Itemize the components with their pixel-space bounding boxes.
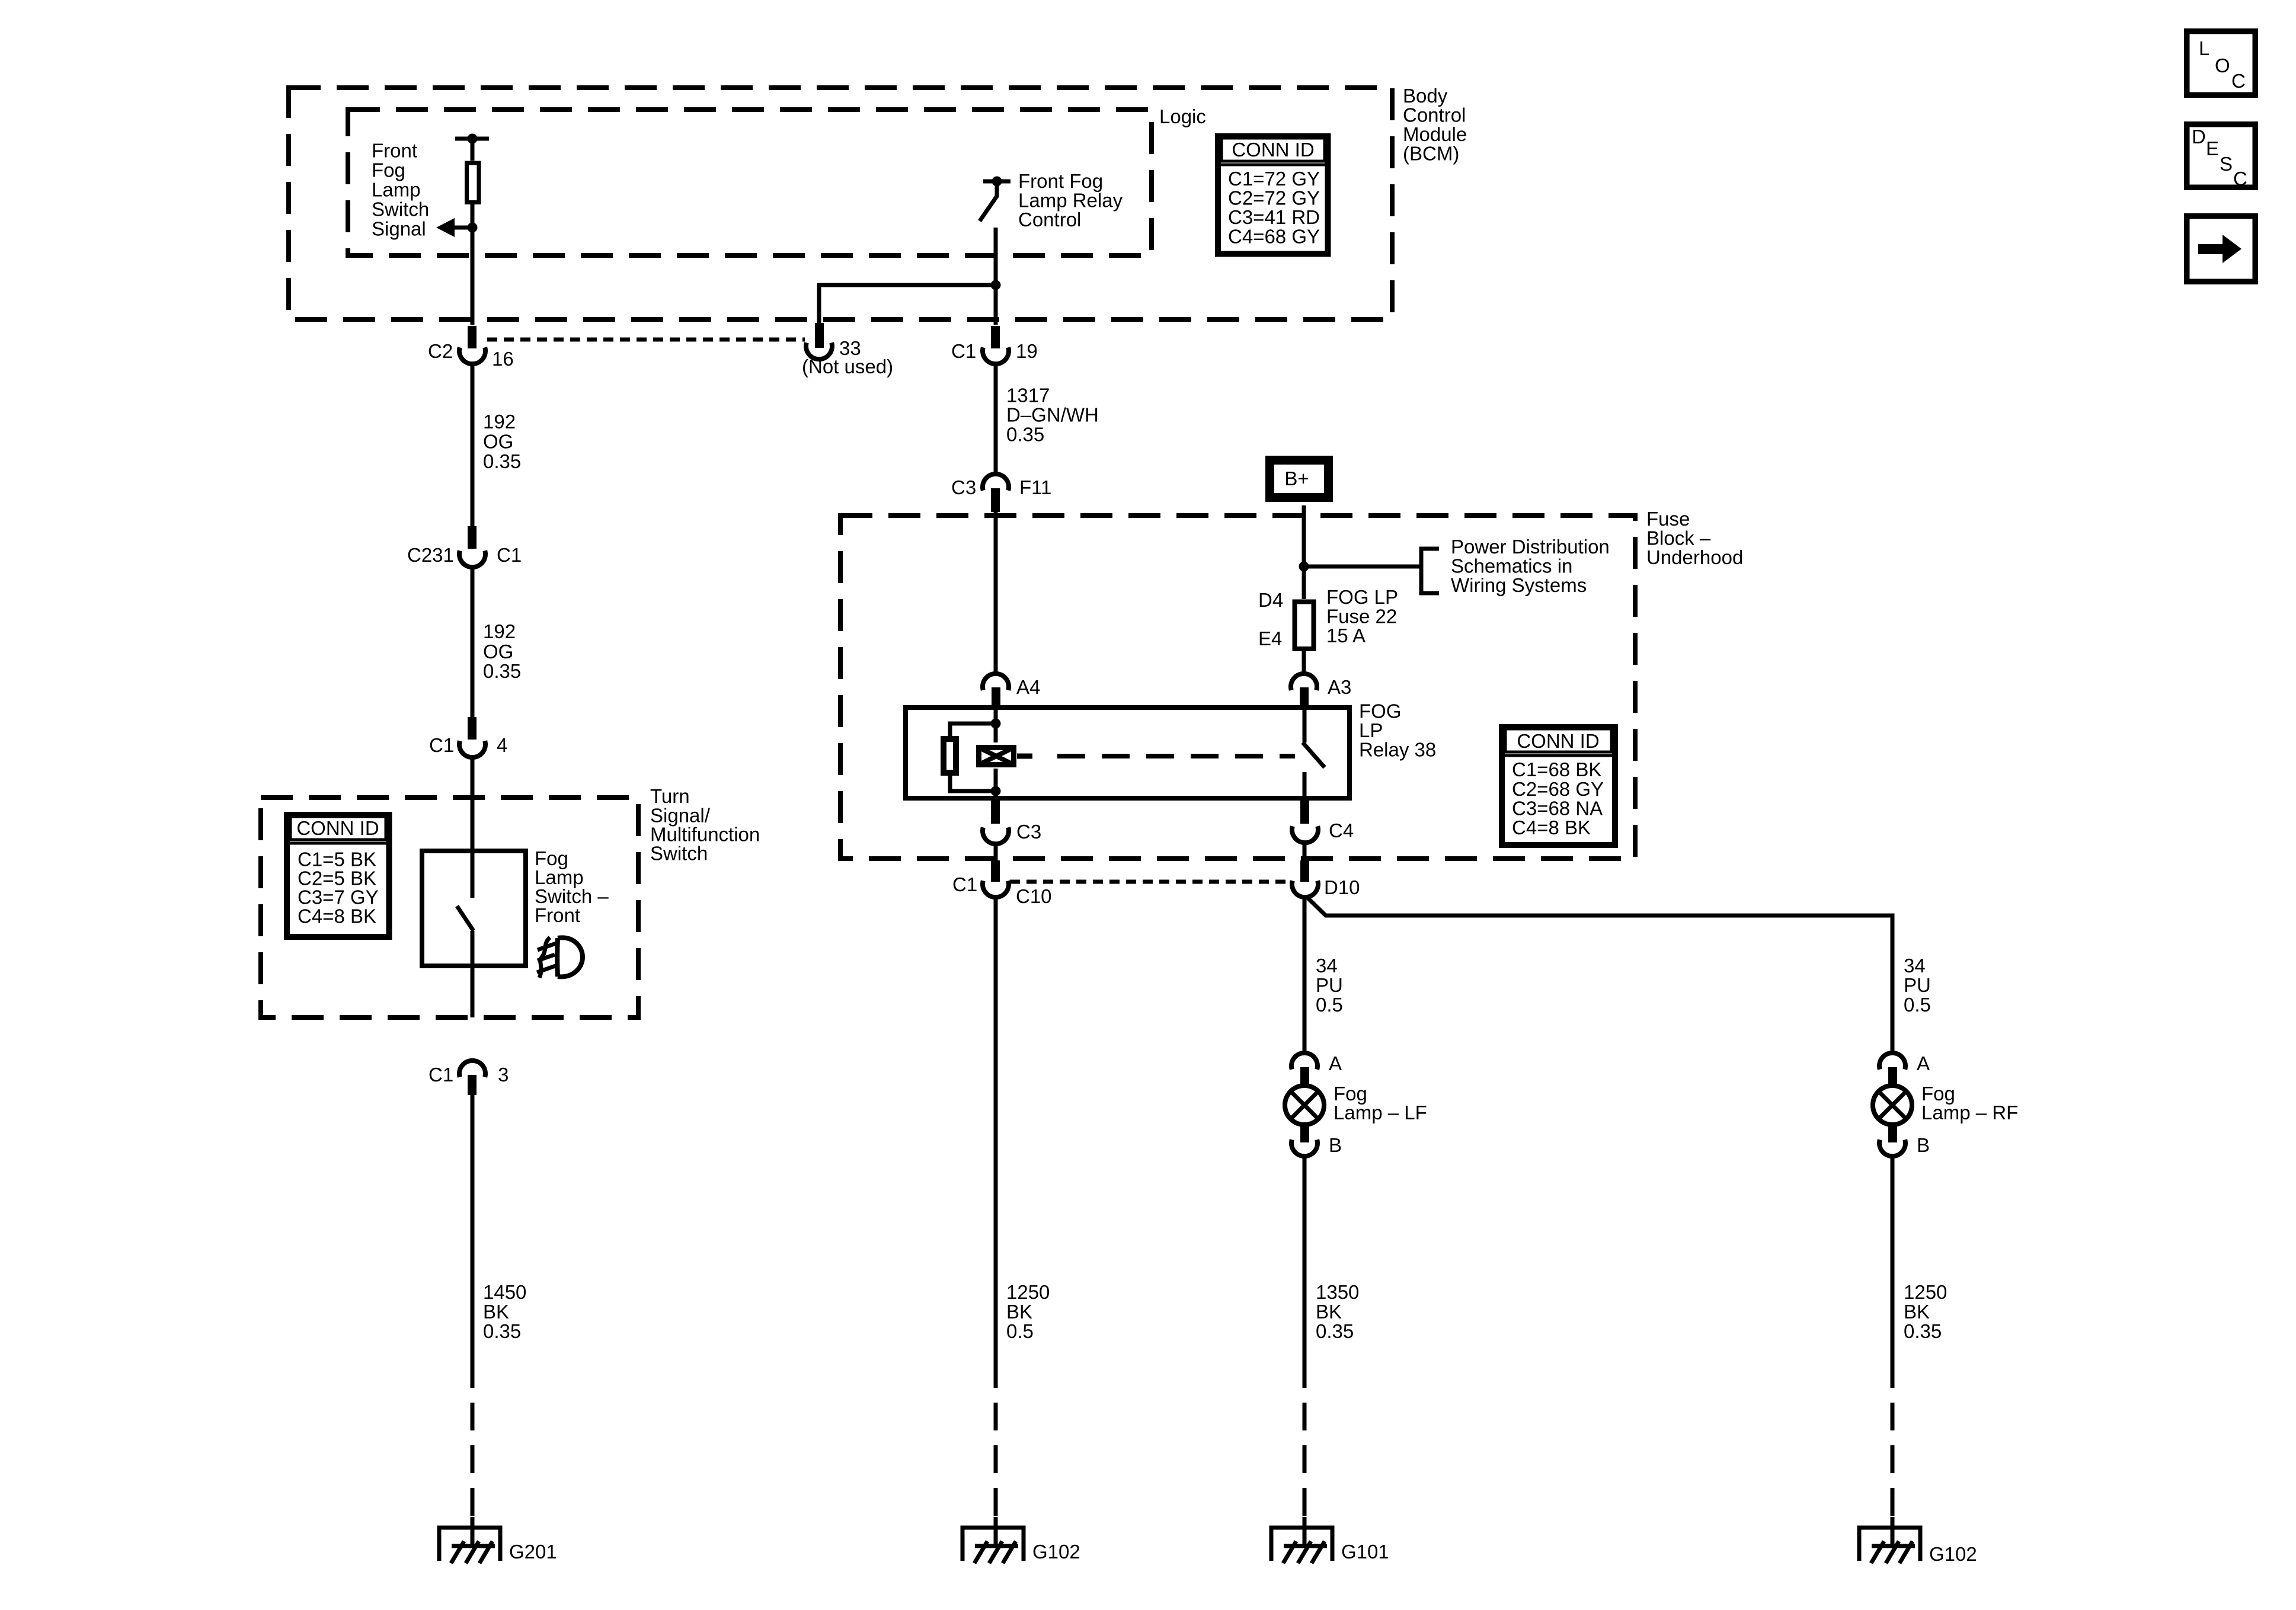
svg-text:34: 34 (1904, 955, 1926, 977)
wire to power distribution reference (1304, 565, 1421, 569)
label 192 OG 0.35 upper (483, 411, 521, 472)
svg-text:OG: OG (483, 431, 513, 453)
Turn Signal / Multifunction Switch dashed box (261, 798, 638, 1017)
svg-text:B: B (1329, 1134, 1342, 1156)
svg-text:0.5: 0.5 (1316, 994, 1343, 1016)
svg-text:G102: G102 (1032, 1541, 1080, 1563)
svg-text:Switch: Switch (372, 199, 429, 220)
connector C1 pin 19 (983, 326, 1009, 364)
svg-text:G102: G102 (1929, 1543, 1977, 1565)
svg-text:Fuse: Fuse (1646, 508, 1690, 530)
dashed ground wire G102 right (1891, 1360, 1895, 1517)
wire 1450 BK (471, 1095, 475, 1360)
wire LF lamp to ground G101 (1303, 1156, 1307, 1360)
svg-text:G101: G101 (1341, 1541, 1389, 1563)
dashed ground wire G201 (471, 1360, 475, 1517)
svg-text:Control: Control (1018, 209, 1081, 231)
connector A (RF lamp) (1879, 1053, 1905, 1086)
svg-text:C1: C1 (951, 340, 976, 362)
svg-text:0.35: 0.35 (483, 660, 521, 682)
svg-text:C4: C4 (1329, 820, 1354, 841)
svg-text:FOG: FOG (1359, 700, 1402, 722)
CONN ID table (multifunction switch) (287, 815, 389, 937)
B+ power feed box (1270, 460, 1329, 498)
connector A4 (983, 674, 1009, 709)
fog lamp icon (537, 937, 583, 978)
svg-text:PU: PU (1904, 974, 1931, 996)
bracket: off-page reference (1421, 549, 1439, 593)
connector boundary dotted line C2-33 (487, 338, 805, 342)
connector C231 / C1 (459, 526, 485, 567)
svg-text:Logic: Logic (1159, 105, 1206, 127)
svg-text:192: 192 (483, 620, 516, 642)
svg-text:C: C (2233, 168, 2247, 190)
svg-text:CONN ID: CONN ID (1517, 730, 1599, 752)
label 1250 BK 0.35 (RF) (1904, 1281, 1947, 1342)
wire C4 to D10 (1303, 843, 1307, 862)
svg-text:0.35: 0.35 (483, 1320, 521, 1342)
svg-text:E: E (2206, 137, 2219, 159)
lamp Fog Lamp - LF (1285, 1086, 1324, 1125)
svg-text:Module: Module (1403, 123, 1467, 145)
svg-text:B: B (1917, 1134, 1930, 1156)
svg-text:C3=68 NA: C3=68 NA (1512, 798, 1603, 820)
Body Control Module (BCM) dashed box (289, 88, 1392, 319)
wire fuse to A3 (1302, 651, 1306, 674)
arrow navigation box (2187, 216, 2256, 282)
svg-text:CONN ID: CONN ID (296, 817, 379, 839)
connector C3 / F11 (983, 474, 1009, 512)
svg-text:Relay 38: Relay 38 (1359, 739, 1436, 761)
svg-text:Control: Control (1403, 104, 1466, 126)
connector A (LF lamp) (1291, 1053, 1318, 1086)
svg-text:BK: BK (1006, 1301, 1032, 1323)
svg-text:Underhood: Underhood (1646, 546, 1743, 568)
CONN ID table U1 (BCM) (1218, 136, 1328, 254)
svg-text:1450: 1450 (483, 1281, 526, 1303)
Logic dashed box (348, 110, 1152, 255)
svg-text:BK: BK (1904, 1301, 1930, 1323)
svg-text:C2=72 GY: C2=72 GY (1228, 187, 1320, 209)
wire branch to pin 33 (819, 280, 1001, 324)
connector C4 (relay output right) (1292, 800, 1318, 843)
svg-text:F11: F11 (1019, 476, 1051, 498)
CONN ID table (fuse block) (1502, 727, 1615, 845)
label Power Distribution Schematics in Wiring Systems (1451, 536, 1610, 596)
svg-text:A: A (1917, 1052, 1930, 1074)
wire 192 OG upper (471, 364, 475, 527)
svg-text:C1: C1 (497, 544, 522, 566)
ground G102 (right) (1859, 1528, 1920, 1563)
svg-text:D10: D10 (1324, 876, 1360, 898)
svg-text:C1: C1 (952, 873, 977, 895)
Fuse Block - Underhood dashed box (840, 516, 1635, 859)
svg-text:C4=8 BK: C4=8 BK (298, 905, 376, 927)
wire F11 to A4 (994, 512, 998, 674)
dashed ground wire G101 (1303, 1360, 1307, 1517)
label Fuse Block - Underhood (1646, 508, 1743, 568)
label Turn Signal/ Multifunction Switch (650, 785, 760, 865)
relay coil circuit (944, 708, 1001, 798)
label 1250 BK 0.5 (1006, 1281, 1050, 1342)
relay switch contact (1303, 708, 1325, 798)
svg-text:G201: G201 (509, 1541, 557, 1563)
svg-text:C2=68 GY: C2=68 GY (1512, 778, 1604, 800)
arrow: switch signal output (436, 218, 478, 237)
DESC reference box (2187, 124, 2256, 190)
label Front Fog Lamp Switch Signal (372, 140, 429, 240)
svg-text:C10: C10 (1016, 885, 1052, 907)
svg-text:C1: C1 (429, 734, 454, 756)
label 34 PU 0.5 (RF) (1904, 955, 1931, 1016)
svg-text:A3: A3 (1328, 676, 1351, 698)
svg-text:Lamp Relay: Lamp Relay (1018, 190, 1123, 212)
svg-text:C2: C2 (428, 340, 453, 362)
wire branch D10 to RF lamp (1306, 896, 1892, 1053)
svg-text:BK: BK (1316, 1301, 1342, 1323)
svg-text:E4: E4 (1258, 628, 1282, 649)
svg-text:1250: 1250 (1904, 1281, 1947, 1303)
svg-text:PU: PU (1316, 974, 1343, 996)
svg-text:CONN ID: CONN ID (1232, 139, 1314, 161)
svg-text:L: L (2199, 37, 2209, 59)
svg-text:Wiring Systems: Wiring Systems (1451, 574, 1587, 596)
connector C3 (relay output left) (983, 800, 1009, 844)
LOC reference box (2187, 31, 2256, 95)
ground G102 (left) (962, 1528, 1024, 1563)
wire into switch module (471, 757, 475, 898)
svg-text:1350: 1350 (1316, 1281, 1359, 1303)
label 192 OG 0.35 lower (483, 620, 521, 682)
fuse FOG LP Fuse 22 15A (1295, 602, 1314, 649)
connector C2 pin 16 (459, 326, 485, 364)
label 1317 D-GN/WH 0.35 (1006, 385, 1099, 446)
svg-text:Front: Front (535, 904, 580, 926)
svg-text:16: 16 (492, 348, 514, 370)
svg-text:C4=8 BK: C4=8 BK (1512, 817, 1591, 838)
switch: Front Fog Lamp Relay Control driver (980, 177, 1011, 325)
svg-text:1317: 1317 (1006, 385, 1050, 406)
wire C10 to ground G102 (994, 897, 998, 1360)
resistor: Front Fog Lamp Switch Signal pull-up (455, 134, 489, 325)
svg-text:Front Fog: Front Fog (1018, 170, 1103, 192)
label 1350 BK 0.35 (1316, 1281, 1359, 1342)
svg-text:3: 3 (498, 1064, 509, 1086)
svg-text:Switch: Switch (650, 843, 708, 865)
svg-text:1250: 1250 (1006, 1281, 1050, 1303)
dashed ground wire G102 left (994, 1360, 998, 1517)
wire RF lamp to ground G102 (1891, 1156, 1895, 1360)
svg-text:C4=68 GY: C4=68 GY (1228, 226, 1320, 248)
ground G201 (439, 1528, 500, 1563)
svg-text:D4: D4 (1258, 589, 1283, 611)
dashed relay control line (1057, 754, 1295, 758)
svg-text:C1=72 GY: C1=72 GY (1228, 168, 1320, 190)
svg-text:Block –: Block – (1646, 527, 1711, 549)
wire B+ to fuse (1302, 505, 1306, 599)
svg-text:C3=41 RD: C3=41 RD (1228, 206, 1320, 228)
relay coil box with X (979, 748, 1033, 765)
svg-text:0.35: 0.35 (1316, 1320, 1354, 1342)
ground G101 (1271, 1528, 1332, 1563)
svg-text:C: C (2231, 70, 2246, 92)
svg-text:C231: C231 (407, 544, 454, 566)
connector boundary dotted line C10-D10 (1010, 880, 1291, 884)
wire 1317 D-GN/WH (994, 364, 998, 474)
svg-text:FOG LP: FOG LP (1326, 586, 1398, 608)
svg-text:A4: A4 (1016, 676, 1040, 698)
svg-text:192: 192 (483, 411, 516, 433)
svg-text:LP: LP (1359, 719, 1383, 741)
connector B (LF lamp) (1291, 1124, 1318, 1156)
svg-text:(Not used): (Not used) (802, 356, 893, 377)
connector C1 pin 4 (459, 717, 485, 757)
svg-text:Turn: Turn (650, 785, 690, 807)
svg-text:C3: C3 (951, 476, 976, 498)
svg-text:0.35: 0.35 (483, 450, 521, 472)
relay FOG LP Relay 38 box (906, 708, 1350, 798)
svg-text:Fog: Fog (372, 159, 405, 181)
svg-text:Signal: Signal (372, 218, 426, 240)
svg-text:O: O (2215, 55, 2230, 76)
svg-text:19: 19 (1016, 340, 1038, 362)
svg-text:Schematics in: Schematics in (1451, 555, 1572, 577)
svg-text:Body: Body (1403, 85, 1448, 107)
svg-text:34: 34 (1316, 955, 1338, 977)
svg-text:Lamp: Lamp (372, 179, 421, 201)
svg-text:C3: C3 (1016, 821, 1041, 843)
svg-text:Lamp – RF: Lamp – RF (1921, 1102, 2018, 1124)
label Fog Lamp Switch - Front (535, 847, 609, 926)
connector A3 (1291, 674, 1317, 709)
connector B (RF lamp) (1879, 1124, 1905, 1156)
svg-text:S: S (2220, 153, 2233, 175)
connector D10 (1292, 860, 1318, 897)
label 1450 BK 0.35 (483, 1281, 526, 1342)
svg-text:0.5: 0.5 (1904, 994, 1931, 1016)
switch: Fog Lamp Switch - Front (422, 851, 526, 1017)
wire D10 down to LF lamp (1303, 897, 1307, 1053)
node: B+ distribution junction (1299, 562, 1309, 572)
svg-text:(BCM): (BCM) (1403, 143, 1459, 165)
svg-text:Power Distribution: Power Distribution (1451, 536, 1610, 558)
svg-text:BK: BK (483, 1301, 509, 1323)
svg-text:Front: Front (372, 140, 417, 162)
svg-text:15 A: 15 A (1326, 625, 1366, 646)
svg-text:A: A (1329, 1052, 1342, 1074)
svg-text:4: 4 (497, 734, 507, 756)
svg-text:Fuse 22: Fuse 22 (1326, 606, 1397, 628)
lamp Fog Lamp - RF (1873, 1086, 1912, 1125)
svg-text:C1=68 BK: C1=68 BK (1512, 758, 1601, 780)
svg-text:Lamp – LF: Lamp – LF (1334, 1102, 1427, 1124)
label 34 PU 0.5 (LF) (1316, 955, 1343, 1016)
connector pin 33 (Not used) (806, 323, 832, 359)
connector C1 pin 3 (459, 1061, 485, 1095)
svg-text:D: D (2192, 126, 2206, 148)
svg-text:C1: C1 (428, 1064, 453, 1086)
label Front Fog Lamp Relay Control (1018, 170, 1123, 231)
svg-text:0.35: 0.35 (1006, 424, 1044, 446)
wire C3 to C10 (994, 844, 998, 862)
label Body Control Module (BCM) (1403, 85, 1467, 165)
svg-text:0.35: 0.35 (1904, 1320, 1942, 1342)
svg-text:D–GN/WH: D–GN/WH (1006, 404, 1099, 426)
svg-text:0.5: 0.5 (1006, 1320, 1034, 1342)
svg-text:B+: B+ (1284, 468, 1309, 489)
wire 192 OG lower (471, 567, 475, 718)
svg-text:OG: OG (483, 641, 513, 662)
connector C1 / C10 (983, 860, 1009, 897)
